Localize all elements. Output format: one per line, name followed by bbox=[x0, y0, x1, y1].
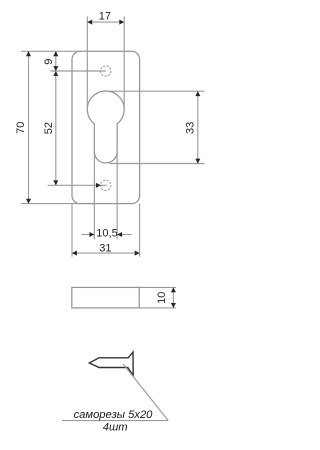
svg-text:33: 33 bbox=[184, 122, 196, 134]
screw hole bottom (dashed) bbox=[101, 180, 111, 190]
plate front view bbox=[72, 51, 140, 203]
center line top hole bbox=[51, 70, 106, 72]
svg-text:70: 70 bbox=[15, 122, 27, 134]
extension line slot right bbox=[116, 152, 118, 240]
extension line 33 bottom bbox=[110, 163, 205, 165]
arrow 10,5 left bbox=[89, 232, 94, 237]
extension line 17 right bbox=[123, 16, 125, 109]
arrow 33 bottom bbox=[195, 159, 200, 164]
extension line plate bottom bbox=[21, 203, 82, 205]
svg-text:4шт: 4шт bbox=[103, 422, 128, 434]
dimension line 10,5 left segment bbox=[82, 234, 95, 236]
arrow 9 top bbox=[53, 51, 58, 56]
arrow 52 top bbox=[53, 71, 58, 76]
extension line slot left bbox=[93, 152, 95, 240]
extension line 31 right bbox=[139, 204, 141, 257]
extension line 33 top bbox=[109, 90, 204, 92]
dimension line 70 bbox=[28, 51, 30, 203]
arrow 31 right bbox=[135, 251, 140, 256]
arrow 17 right bbox=[119, 20, 124, 25]
arrow 52 bottom bbox=[53, 180, 58, 185]
svg-text:52: 52 bbox=[43, 122, 55, 134]
screw body bbox=[89, 352, 133, 375]
arrow 10,5 right bbox=[117, 232, 122, 237]
screw hole top (dashed) bbox=[101, 66, 111, 76]
arrow 70 top bbox=[26, 51, 31, 56]
extension line plate top bbox=[21, 50, 82, 52]
dimension line 10,5 right segment bbox=[117, 234, 131, 236]
extension line thickness bottom bbox=[139, 307, 176, 309]
dimension line 31 bbox=[72, 252, 140, 254]
arrow center line bottom hole bbox=[96, 183, 101, 188]
arrow 33 top bbox=[195, 91, 200, 96]
dimension line 9 and 52 bbox=[55, 51, 57, 185]
svg-text:31: 31 bbox=[99, 242, 111, 254]
svg-text:10,5: 10,5 bbox=[96, 228, 117, 240]
dimension line 10 bbox=[172, 287, 174, 308]
dimension line 33 bbox=[197, 91, 199, 163]
extension line 31 left bbox=[71, 204, 73, 257]
arrow 10 top bbox=[171, 287, 176, 292]
extension line thickness top bbox=[139, 286, 176, 288]
arrow 9 bottom bbox=[53, 66, 58, 71]
keyhole cutout bbox=[87, 91, 124, 163]
extension line 17 left bbox=[86, 16, 88, 109]
dimension line 17 bbox=[87, 21, 124, 23]
center line bottom hole bbox=[48, 184, 107, 186]
svg-text:10: 10 bbox=[156, 292, 168, 304]
leader line bbox=[123, 364, 168, 421]
arrow 17 left bbox=[87, 20, 92, 25]
note underline bbox=[62, 420, 168, 422]
svg-text:саморезы 5x20: саморезы 5x20 bbox=[74, 409, 154, 421]
svg-text:17: 17 bbox=[99, 10, 111, 22]
arrow 31 left bbox=[72, 251, 77, 256]
arrow 10 bottom bbox=[171, 303, 176, 308]
arrow 70 bottom bbox=[26, 199, 31, 204]
svg-text:9: 9 bbox=[43, 59, 55, 65]
side view rectangle bbox=[72, 287, 139, 308]
